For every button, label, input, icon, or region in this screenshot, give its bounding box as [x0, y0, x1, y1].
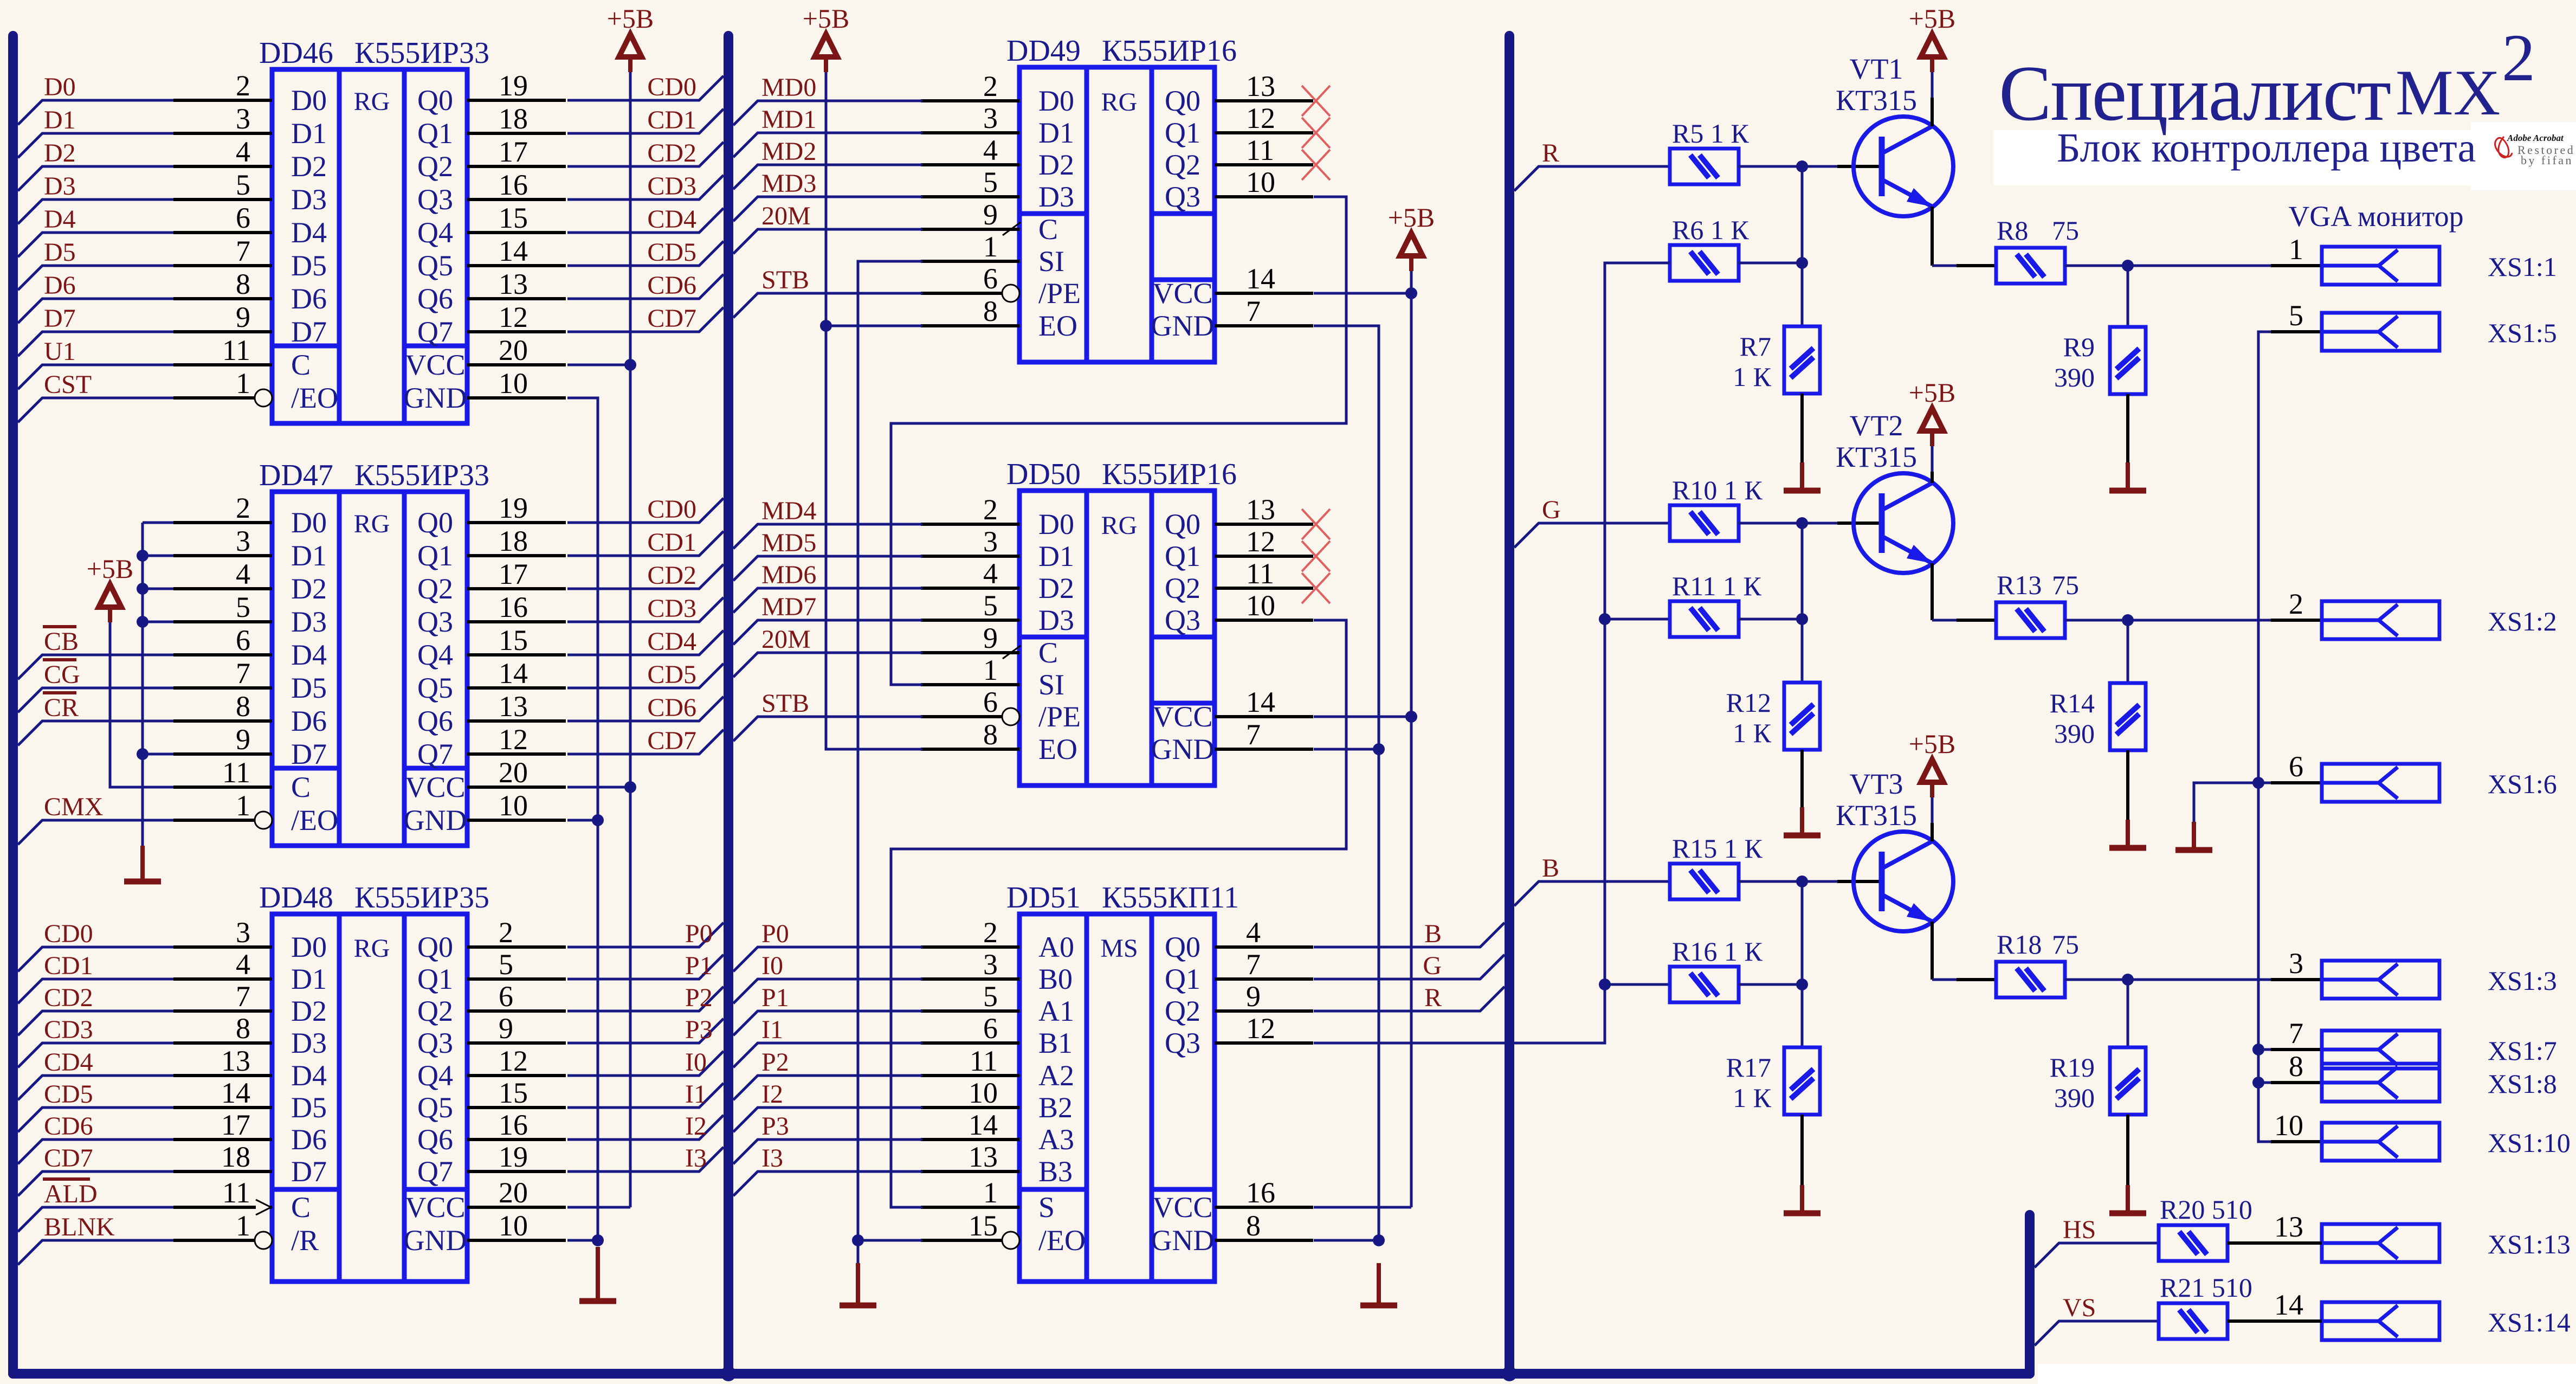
wire/net D6 bus1 to DD46 — [18, 299, 173, 323]
svg-text:1: 1 — [983, 230, 998, 263]
svg-text:8: 8 — [236, 1012, 250, 1045]
pin 8 EO of DD50 — [921, 748, 1019, 751]
connector XS1:8 pin 8 — [2271, 1081, 2322, 1084]
wire base junction down to R16 junction — [1801, 881, 1804, 984]
svg-text:5: 5 — [983, 166, 998, 198]
svg-text:I2: I2 — [761, 1080, 783, 1109]
svg-text:D2: D2 — [1038, 572, 1074, 604]
wire R14 to ground — [2126, 750, 2129, 820]
svg-text:D5: D5 — [44, 238, 76, 267]
wire/net P3 DD48 Q3 to bus2 — [567, 1019, 724, 1043]
wire/net CD1 DD46 Q1 to bus2 — [567, 109, 724, 133]
resistor R20 — [2159, 1225, 2228, 1261]
pin 14 VCC of DD50 — [1215, 715, 1313, 718]
wire R10 to VT2 base — [1739, 522, 1837, 525]
svg-text:5: 5 — [983, 589, 998, 622]
pin 3 B0 of DD51 — [921, 977, 1019, 981]
svg-text:C: C — [291, 771, 311, 803]
pin 4 D2 of DD50 — [921, 587, 1019, 590]
resistor R11 — [1670, 601, 1739, 637]
pin 7 GND of DD49 — [1215, 324, 1313, 327]
svg-text:Q5: Q5 — [417, 1091, 453, 1124]
wire/net I0 DD48 Q4 to bus2 — [567, 1051, 724, 1076]
wire/net CD0 bus1 to DD48 — [18, 947, 173, 971]
svg-text:Специалист: Специалист — [1999, 49, 2390, 137]
svg-text:7: 7 — [1246, 295, 1261, 327]
svg-text:D3: D3 — [291, 606, 327, 638]
wire/net CR bus1 to DD47 — [18, 721, 173, 745]
wire collector of VT1 to +5V — [1931, 72, 1934, 98]
wire/net D5 bus1 to DD46 — [18, 266, 173, 290]
wire R9 to ground — [2126, 394, 2129, 462]
svg-text:U1: U1 — [44, 337, 76, 366]
pin 6 /PE of DD49 — [921, 292, 1002, 295]
svg-text:16: 16 — [499, 169, 528, 201]
svg-text:1 К: 1 К — [1733, 1083, 1772, 1113]
ground R17 gnd — [1800, 1185, 1804, 1213]
svg-text:D3: D3 — [44, 172, 76, 201]
svg-text:15: 15 — [969, 1209, 998, 1242]
svg-text:13: 13 — [2274, 1211, 2303, 1243]
pin 2 D0 of DD47 — [173, 521, 272, 524]
svg-text:13: 13 — [221, 1045, 250, 1077]
svg-text:Q1: Q1 — [417, 539, 453, 572]
svg-text:P3: P3 — [761, 1112, 789, 1141]
svg-text:CD4: CD4 — [44, 1048, 93, 1077]
svg-text:XS1:13: XS1:13 — [2488, 1229, 2571, 1259]
svg-text:3: 3 — [983, 948, 998, 981]
wire emitter of VT2 to R13 — [1931, 563, 1934, 620]
svg-text:14: 14 — [499, 657, 528, 690]
wire/net I3 DD48 Q7 to bus2 — [567, 1147, 724, 1171]
wire/net CD1 bus1 to DD48 — [18, 979, 173, 1003]
svg-text:20: 20 — [499, 1176, 528, 1209]
svg-text:DD47: DD47 — [259, 459, 333, 492]
wire DD51 VCC to +5V rail — [1314, 1206, 1411, 1209]
no-connect X — [1302, 118, 1330, 148]
svg-text:DD49: DD49 — [1006, 34, 1081, 68]
pin 1 S of DD51 — [921, 1206, 1019, 1209]
white strip bottom right — [2038, 1364, 2576, 1384]
connector XS1:14 pin 14 — [2271, 1319, 2322, 1323]
svg-text:MS: MS — [1100, 934, 1138, 963]
svg-text:75: 75 — [2052, 929, 2079, 960]
pin 2 A0 of DD51 — [921, 945, 1019, 949]
svg-text:B3: B3 — [1038, 1155, 1073, 1188]
svg-text:DD51: DD51 — [1006, 881, 1081, 915]
svg-text:/EO: /EO — [291, 804, 338, 836]
svg-text:ALD: ALD — [44, 1180, 98, 1208]
svg-text:Q3: Q3 — [1165, 604, 1200, 636]
svg-text:19: 19 — [499, 1141, 528, 1173]
svg-text:8: 8 — [983, 295, 998, 327]
wire/net I3 bus2 to DD51 — [733, 1171, 922, 1196]
pin 2 D0 of DD50 — [921, 523, 1019, 526]
svg-text:390: 390 — [2054, 1083, 2095, 1113]
pin 14 A3 of DD51 — [921, 1138, 1019, 1141]
wire DD47 GND to chain — [567, 819, 598, 822]
svg-text:R: R — [1424, 983, 1442, 1012]
pin 6 /PE of DD50 — [921, 715, 1002, 718]
svg-text:CD5: CD5 — [647, 238, 696, 267]
wire emitter of VT3 to R18 — [1931, 922, 1934, 980]
svg-text:R6 1 К: R6 1 К — [1672, 215, 1749, 245]
wire/net DD51 Q3 to R6/R11/R16 column — [1314, 263, 1670, 1043]
svg-text:RG: RG — [354, 934, 390, 963]
svg-text:9: 9 — [1246, 980, 1261, 1013]
svg-text:2: 2 — [236, 69, 250, 102]
wire/net G from bus3 to R10 — [1514, 523, 1670, 548]
svg-text:4: 4 — [236, 948, 250, 981]
svg-text:CD4: CD4 — [647, 205, 696, 234]
svg-text:VCC: VCC — [405, 349, 465, 381]
wire/net P1 DD48 Q1 to bus2 — [567, 955, 724, 979]
wire/net I0 bus2 to DD51 — [733, 979, 922, 1003]
wire/net CD2 DD46 Q2 to bus2 — [567, 142, 724, 166]
svg-text:D1: D1 — [1038, 117, 1074, 149]
svg-text:Q4: Q4 — [417, 1059, 453, 1092]
svg-text:CD6: CD6 — [44, 1112, 93, 1141]
ground R19 gnd — [2126, 1185, 2130, 1213]
svg-text:КТ315: КТ315 — [1836, 84, 1917, 117]
svg-text:Q3: Q3 — [417, 1027, 453, 1059]
pin 1 SI of DD50 — [921, 683, 1019, 686]
svg-text:R20 510: R20 510 — [2160, 1194, 2252, 1225]
pin 4 D1 of DD48 — [173, 977, 272, 981]
svg-text:Q6: Q6 — [417, 1123, 453, 1156]
svg-text:STB: STB — [761, 689, 809, 718]
wire/net CD6 bus1 to DD48 — [18, 1140, 173, 1164]
svg-text:I2: I2 — [685, 1112, 707, 1141]
wire/net P1 bus2 to DD51 — [733, 1011, 922, 1035]
wire/net MD3 bus2 to DD49 — [733, 197, 922, 221]
ground XS1 shield — [2192, 822, 2196, 850]
wire/net P2 DD48 Q2 to bus2 — [567, 987, 724, 1011]
svg-text:RG: RG — [1101, 511, 1138, 540]
svg-text:D1: D1 — [291, 539, 327, 572]
svg-text:9: 9 — [236, 723, 250, 756]
pin 14 VCC of DD49 — [1215, 292, 1313, 295]
wire ground net XS1:5/6/7/8/10 — [2258, 332, 2271, 1142]
svg-text:4: 4 — [983, 134, 998, 166]
svg-text:D3: D3 — [1038, 181, 1074, 213]
wire/net STB bus2 to DD50 /PE — [733, 717, 922, 741]
svg-text:Q2: Q2 — [417, 995, 453, 1027]
wire/net CB bus1 to DD47 — [18, 655, 173, 679]
svg-text:MD5: MD5 — [761, 529, 816, 557]
svg-text:D0: D0 — [44, 73, 76, 101]
svg-text:Adobe Acrobat: Adobe Acrobat — [2507, 133, 2564, 143]
wire R13 to connector — [2065, 619, 2322, 622]
svg-text:XS1:7: XS1:7 — [2488, 1035, 2557, 1066]
pin 1 /EO of DD47 — [173, 819, 255, 822]
ground R7 gnd — [1800, 462, 1804, 491]
svg-text:VGA монитор: VGA монитор — [2288, 200, 2463, 233]
svg-text:12: 12 — [1246, 102, 1275, 134]
svg-text:Q0: Q0 — [1165, 508, 1200, 540]
wire/net HS from riser to R20 — [2035, 1243, 2159, 1267]
wire collector of VT3 to +5V — [1931, 797, 1934, 823]
wire R18 to connector — [2065, 979, 2322, 981]
pin 12 Q7 of DD46 — [467, 330, 566, 333]
pin 6 B1 of DD51 — [921, 1041, 1019, 1045]
svg-text:Q7: Q7 — [417, 316, 453, 348]
wire R17 to ground — [1800, 1115, 1804, 1185]
wire GND chain DD46-DD47-DD48 x=1103 — [567, 398, 598, 1240]
svg-text:R11 1 К: R11 1 К — [1672, 571, 1761, 601]
svg-text:8: 8 — [236, 690, 250, 723]
svg-text:D6: D6 — [291, 282, 327, 315]
pin 10 Q3 of DD50 — [1215, 619, 1313, 622]
svg-text:Q0: Q0 — [417, 931, 453, 963]
svg-text:B: B — [1424, 919, 1442, 948]
svg-text:Q6: Q6 — [417, 705, 453, 737]
svg-text:MD3: MD3 — [761, 169, 816, 198]
wire R20 to XS1:13 — [2228, 1241, 2322, 1245]
pin 5 D3 of DD47 — [173, 620, 272, 623]
wire R12 to ground — [1800, 750, 1804, 807]
resistor R9 — [2110, 327, 2146, 394]
svg-text:R: R — [1542, 139, 1559, 168]
svg-text:6: 6 — [2289, 750, 2303, 783]
svg-text:Q5: Q5 — [417, 672, 453, 704]
svg-text:R17: R17 — [1726, 1052, 1771, 1083]
svg-text:К555ИР33: К555ИР33 — [354, 459, 489, 492]
svg-text:Q1: Q1 — [1165, 117, 1200, 149]
svg-text:D0: D0 — [1038, 508, 1074, 540]
connector XS1:2 pin 2 — [2271, 619, 2322, 622]
resistor R17 — [1784, 1047, 1820, 1115]
wire DD48 VCC to +5V rail — [567, 1206, 630, 1209]
svg-text:CR: CR — [44, 693, 79, 722]
wire DD47 VCC to +5V rail — [567, 786, 630, 789]
svg-text:10: 10 — [499, 789, 528, 822]
svg-text:CD0: CD0 — [44, 919, 93, 948]
svg-text:13: 13 — [499, 690, 528, 723]
svg-text:2: 2 — [983, 493, 998, 526]
pin 16 Q3 of DD46 — [467, 198, 566, 201]
svg-text:CD4: CD4 — [647, 627, 696, 656]
wire DD49 VCC to +5V rail — [1314, 292, 1411, 295]
wire DD49 EO to +5V rail — [826, 325, 922, 327]
svg-text:Q3: Q3 — [1165, 181, 1200, 213]
svg-text:I0: I0 — [761, 951, 783, 980]
svg-text:D2: D2 — [44, 139, 76, 168]
wire R21 to XS1:14 — [2228, 1319, 2322, 1323]
svg-text:D4: D4 — [291, 639, 327, 671]
svg-text:C: C — [1038, 636, 1058, 669]
svg-text:SI: SI — [1038, 245, 1064, 278]
pin 11 C of DD48 — [173, 1206, 272, 1209]
svg-text:КТ315: КТ315 — [1836, 799, 1917, 832]
svg-text:6: 6 — [499, 980, 513, 1013]
svg-text:GND: GND — [404, 1224, 467, 1257]
pin 16 Q3 of DD47 — [467, 620, 566, 623]
svg-text:XS1:14: XS1:14 — [2488, 1307, 2571, 1337]
svg-text:17: 17 — [499, 558, 528, 590]
svg-text:Q7: Q7 — [417, 1155, 453, 1188]
svg-text:Q1: Q1 — [1165, 540, 1200, 572]
wire GND chain DD49/DD50/DD51 x=2544 — [1314, 326, 1379, 1240]
connector XS1:13 pin 13 — [2271, 1241, 2322, 1245]
svg-text:MD0: MD0 — [761, 73, 816, 102]
svg-text:D2: D2 — [1038, 149, 1074, 181]
connector XS1:7 pin 7 — [2271, 1048, 2322, 1051]
ground R9 gnd — [2126, 462, 2130, 491]
wire/net MD6 bus2 to DD50 — [733, 588, 922, 613]
svg-text:10: 10 — [969, 1077, 998, 1109]
wire/net P0 bus2 to DD51 — [733, 947, 922, 971]
svg-text:10: 10 — [1246, 166, 1275, 198]
wire/net I1 bus2 to DD51 — [733, 1043, 922, 1067]
wire/net CMX bus1 to DD47 /EO — [18, 820, 173, 845]
svg-text:C: C — [1038, 213, 1058, 246]
resistor R13 — [1996, 602, 2065, 638]
wire R19 to ground — [2126, 1115, 2129, 1185]
wire/net CD5 DD46 Q5 to bus2 — [567, 241, 724, 266]
svg-text:B0: B0 — [1038, 963, 1073, 995]
svg-text:3: 3 — [983, 525, 998, 558]
svg-text:8: 8 — [236, 268, 250, 300]
svg-text:16: 16 — [499, 591, 528, 623]
wire/net CD7 DD47 Q7 to bus2 — [567, 730, 724, 754]
wire/net CD4 DD47 Q4 to bus2 — [567, 630, 724, 655]
svg-text:P3: P3 — [685, 1015, 713, 1044]
svg-text:1: 1 — [236, 367, 250, 400]
svg-text:К555ИР16: К555ИР16 — [1102, 458, 1237, 491]
svg-text:A3: A3 — [1038, 1123, 1074, 1156]
pin 5 A1 of DD51 — [921, 1009, 1019, 1013]
svg-text:Q0: Q0 — [1165, 85, 1200, 117]
svg-text:XS1:5: XS1:5 — [2488, 318, 2557, 348]
pin 1 /R of DD48 — [173, 1239, 255, 1242]
svg-text:9: 9 — [499, 1012, 513, 1045]
pin 13 Q6 of DD47 — [467, 719, 566, 723]
svg-text:/PE: /PE — [1038, 700, 1081, 733]
pin 5 Q1 of DD48 — [467, 977, 566, 981]
pin 5 D3 of DD50 — [921, 619, 1019, 622]
wire R11 left to column — [1605, 618, 1670, 621]
wire/net P0 DD48 Q0 to bus2 — [567, 923, 724, 947]
wire R6 row from column to resistor — [1605, 262, 1670, 265]
svg-text:4: 4 — [983, 557, 998, 590]
wire R8 to connector — [2065, 265, 2322, 267]
wire emitter of VT1 to R8 — [1931, 207, 1934, 266]
resistor R10 — [1670, 505, 1739, 541]
resistor R14 — [2110, 683, 2146, 750]
pin 7 D5 of DD46 — [173, 264, 272, 267]
pin 9 Q3 of DD48 — [467, 1041, 566, 1045]
svg-text:D4: D4 — [291, 1059, 327, 1092]
svg-text:CD7: CD7 — [647, 726, 696, 755]
svg-text:Q7: Q7 — [417, 738, 453, 770]
wire/net DD49 Q3 to DD50 SI — [891, 197, 1346, 685]
svg-text:9: 9 — [983, 198, 998, 231]
svg-text:11: 11 — [222, 334, 250, 366]
bus vertical bus 3 (middle-right) — [1505, 36, 1514, 1374]
svg-text:6: 6 — [236, 202, 250, 234]
svg-text:D0: D0 — [291, 931, 327, 963]
pin 15 Q5 of DD48 — [467, 1106, 566, 1109]
svg-text:CD5: CD5 — [647, 660, 696, 689]
pin 12 Q3 of DD51 — [1215, 1041, 1313, 1045]
svg-text:2: 2 — [983, 70, 998, 102]
svg-text:7: 7 — [236, 657, 250, 690]
pin 9 D7 of DD47 — [173, 752, 272, 756]
wire/net 20M bus2 to DD50 C — [733, 653, 922, 677]
svg-text:R14: R14 — [2050, 688, 2095, 718]
svg-text:CD2: CD2 — [647, 561, 696, 590]
wire/net R from bus3 to R5 — [1514, 166, 1670, 191]
pin 3 D1 of DD47 — [173, 554, 272, 557]
pin 7 D5 of DD47 — [173, 686, 272, 690]
wire divider column down to R12 — [1801, 619, 1804, 683]
svg-text:I1: I1 — [685, 1080, 707, 1109]
resistor R7 — [1784, 326, 1820, 394]
pin 3 D1 of DD46 — [173, 132, 272, 135]
pin 12 Q1 of DD50 — [1215, 555, 1313, 558]
no-connect X — [1302, 86, 1330, 116]
svg-text:D5: D5 — [291, 1091, 327, 1124]
pin 5 D3 of DD46 — [173, 198, 272, 201]
svg-text:4: 4 — [236, 136, 250, 168]
wire/net CST bus1 to DD46 /EO — [18, 398, 173, 422]
pin 6 D4 of DD47 — [173, 653, 272, 656]
svg-text:7: 7 — [2289, 1017, 2303, 1050]
pin 9 C of DD49 — [921, 228, 1019, 231]
wire/net CD4 bus1 to DD48 — [18, 1076, 173, 1100]
svg-text:Q4: Q4 — [417, 216, 453, 249]
svg-text:CD5: CD5 — [44, 1080, 93, 1109]
wire divider column down to R17 — [1801, 984, 1804, 1047]
pin 11 Q2 of DD50 — [1215, 587, 1313, 590]
svg-text:Q2: Q2 — [1165, 149, 1200, 181]
svg-text:2: 2 — [2289, 588, 2303, 620]
svg-text:3: 3 — [236, 525, 250, 557]
svg-text:I1: I1 — [761, 1015, 783, 1044]
svg-text:/PE: /PE — [1038, 277, 1081, 310]
svg-text:G: G — [1423, 951, 1442, 980]
pin 8 D6 of DD46 — [173, 297, 272, 300]
pin 3 D0 of DD48 — [173, 945, 272, 949]
svg-text:D3: D3 — [1038, 604, 1074, 636]
svg-text:4: 4 — [1246, 916, 1261, 949]
svg-text:VCC: VCC — [1152, 277, 1212, 310]
wire/net CD3 DD47 Q3 to bus2 — [567, 597, 724, 622]
svg-text:I3: I3 — [761, 1144, 783, 1173]
no-connect X — [1302, 150, 1330, 180]
pin 4 D2 of DD49 — [921, 163, 1019, 166]
svg-text:3: 3 — [236, 102, 250, 135]
svg-text:P2: P2 — [685, 983, 713, 1012]
wire/net CD3 DD46 Q3 to bus2 — [567, 175, 724, 199]
svg-text:Q0: Q0 — [417, 506, 453, 539]
pin 20 VCC of DD48 — [467, 1206, 566, 1209]
wire/net CD6 DD46 Q6 to bus2 — [567, 274, 724, 299]
svg-text:13: 13 — [1246, 70, 1275, 102]
wire/net I2 DD48 Q6 to bus2 — [567, 1115, 724, 1140]
svg-text:2: 2 — [499, 916, 513, 949]
pin 10 Q3 of DD49 — [1215, 195, 1313, 198]
wire/net CD7 DD46 Q7 to bus2 — [567, 307, 724, 332]
wire/net B from bus3 to R15 — [1514, 881, 1670, 906]
svg-text:Q3: Q3 — [417, 183, 453, 216]
pin 13 Q6 of DD46 — [467, 297, 566, 300]
svg-text:8: 8 — [983, 718, 998, 751]
svg-text:R21 510: R21 510 — [2160, 1272, 2252, 1303]
svg-text:GND: GND — [1151, 310, 1215, 342]
wire/net D7 bus1 to DD46 — [18, 332, 173, 356]
